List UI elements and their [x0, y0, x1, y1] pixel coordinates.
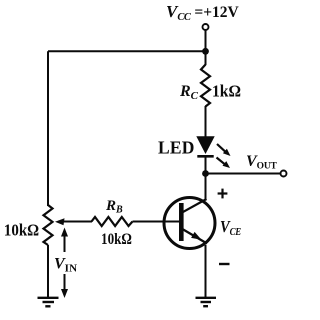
junction node top: [202, 48, 209, 55]
terminal VCC: [203, 24, 209, 30]
wire LED to collector: [205, 157, 207, 201]
VIN arrow up: [64, 231, 66, 252]
wire VCC to junction: [205, 30, 207, 65]
potentiometer 10k: [44, 205, 53, 245]
wire RC to LED: [205, 106, 207, 137]
svg-text:VCE: VCE: [220, 218, 242, 238]
wiper arrow: [58, 221, 92, 223]
transistor Q1: [164, 198, 215, 249]
LED arrow 2: [217, 158, 226, 165]
label plus: [218, 192, 228, 194]
wire left vertical: [47, 51, 49, 206]
LED arrow 1: [217, 144, 226, 152]
svg-text:LED: LED: [158, 138, 195, 158]
svg-text:VCC=+12V: VCC=+12V: [166, 2, 240, 23]
LED D1: [196, 136, 214, 154]
junction node VOUT: [202, 170, 209, 177]
wire RB to base: [133, 221, 181, 223]
svg-text:VIN: VIN: [54, 256, 77, 275]
resistor RC: [201, 65, 210, 107]
resistor RB: [92, 217, 133, 226]
terminal VOUT: [281, 171, 287, 177]
VIN arrow down: [64, 274, 66, 294]
wire to VOUT: [206, 173, 282, 175]
svg-text:10kΩ: 10kΩ: [4, 222, 39, 240]
svg-text:RC: RC: [179, 83, 199, 102]
svg-text:1kΩ: 1kΩ: [212, 81, 241, 101]
wire emitter to ground: [205, 245, 207, 298]
wire top horizontal: [48, 50, 206, 52]
label minus: [219, 263, 230, 265]
svg-text:10kΩ: 10kΩ: [101, 231, 132, 248]
wire pot to ground: [47, 245, 49, 298]
svg-text:VOUT: VOUT: [246, 153, 278, 172]
ground left: [38, 297, 59, 299]
svg-text:RB: RB: [105, 198, 123, 216]
ground right: [196, 297, 217, 299]
